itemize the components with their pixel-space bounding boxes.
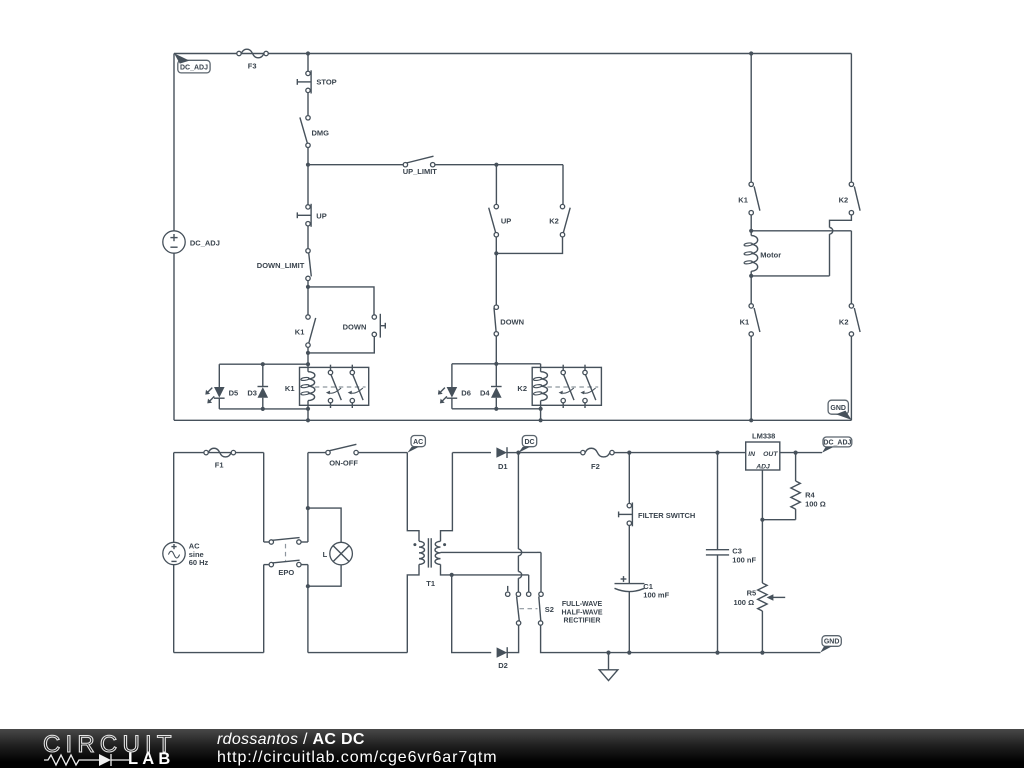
node flag DC <box>518 436 536 453</box>
node junction c3 bottom <box>715 651 719 655</box>
wire relay K2 to ground rail <box>540 409 542 421</box>
wire down-pushbutton loop top <box>308 287 374 315</box>
wire k2 jog down <box>830 215 852 228</box>
node junction below K1 switch <box>306 351 310 355</box>
svg-text:K1: K1 <box>738 196 748 205</box>
svg-text:C1: C1 <box>643 582 653 591</box>
wire k1switch-junction <box>307 347 309 353</box>
svg-text:D4: D4 <box>480 389 490 398</box>
wire epo pole2 down <box>307 565 309 653</box>
wire riser to on-off <box>307 453 309 509</box>
wire k2 jog to motor bottom <box>829 234 831 276</box>
junction up branch <box>494 163 498 167</box>
wire motor branch drop <box>750 54 752 183</box>
node junction rail motor <box>749 418 753 422</box>
circuitlab logo text <box>43 731 177 759</box>
svg-text:Motor: Motor <box>760 251 781 260</box>
relay K1 contact b <box>348 365 363 408</box>
switch EPO pole 1 <box>264 538 308 545</box>
logo resistor-diode glyph <box>44 752 130 767</box>
wire left rail bottom <box>173 253 175 420</box>
wire parallel pair bottoms <box>495 237 497 254</box>
wire ground rail <box>174 419 851 421</box>
wire top rail <box>174 53 851 55</box>
wire stop-dmg <box>307 93 309 116</box>
node flag DC_ADJ right <box>822 437 852 453</box>
wire D5/D3 box top <box>219 363 308 365</box>
svg-text:OUT: OUT <box>763 451 778 458</box>
wire secondary rail to D1 <box>452 452 491 454</box>
transformer T1 primary <box>413 541 424 564</box>
diode D3 <box>247 364 268 409</box>
node junction relay K1 bottom <box>306 407 310 411</box>
wire bottom tap down to D2 <box>452 575 492 653</box>
url text <box>217 749 498 767</box>
wire d2 to s2 pole1 <box>507 625 518 652</box>
dashed link S2 <box>520 608 538 610</box>
pushbutton UP <box>297 204 326 227</box>
capacitor C1 <box>615 576 670 653</box>
node junction relay K2 bottom <box>539 407 543 411</box>
regulator U1 LM338 <box>746 432 780 471</box>
wire k2 lower to rail corner <box>850 336 852 420</box>
wire filter switch to C1 <box>628 525 630 583</box>
diode D2 <box>497 647 508 670</box>
fuse F3 <box>237 49 268 70</box>
fuse F2 <box>581 448 615 471</box>
node junction lamp bottom <box>306 584 310 588</box>
wire secondary top riser <box>441 453 453 542</box>
wire down switch to relay K2 <box>495 336 497 364</box>
wire hop over motor-top line <box>830 228 833 235</box>
svg-text:L: L <box>323 550 328 559</box>
wire k1 contact to motor <box>750 215 752 231</box>
svg-text:HALF-WAVE: HALF-WAVE <box>561 609 602 616</box>
pushbutton FILTER SWITCH <box>619 503 696 527</box>
wire junction to UP switch <box>495 165 497 205</box>
node junction D3 top <box>261 362 265 366</box>
svg-text:DOWN: DOWN <box>343 323 367 332</box>
wire ac loop bottom <box>174 652 264 654</box>
node junction motor top <box>749 229 753 233</box>
wire c3 to regulator <box>718 452 746 454</box>
transformer T1 secondary <box>426 541 446 588</box>
svg-text:F1: F1 <box>215 461 224 470</box>
node junction lamp top <box>306 506 310 510</box>
svg-text:T1: T1 <box>426 579 435 588</box>
wire junction-K1switch <box>307 287 309 315</box>
svg-text:F3: F3 <box>248 61 257 70</box>
wire dmg-junction <box>307 148 309 165</box>
svg-text:EPO: EPO <box>278 568 294 577</box>
svg-text:UP_LIMIT: UP_LIMIT <box>403 167 438 176</box>
relay K2 <box>517 364 601 409</box>
svg-text:D6: D6 <box>461 389 471 398</box>
voltage source V2 AC <box>163 542 209 567</box>
wire d1 to dc node <box>507 452 518 454</box>
node junction down-pushbutton loop top <box>306 285 310 289</box>
svg-text:GND: GND <box>830 405 846 412</box>
relay K1 <box>285 364 369 409</box>
svg-text:DOWN_LIMIT: DOWN_LIMIT <box>257 261 305 270</box>
relay K2 contact b <box>580 365 595 408</box>
wire k1 lower to rail <box>750 336 752 420</box>
wire downlimit-junction <box>307 281 309 287</box>
switch EPO pole 2 <box>264 560 308 577</box>
node junction DC <box>516 451 520 455</box>
svg-text:DOWN: DOWN <box>500 317 524 326</box>
node junction pair bottom <box>494 251 498 255</box>
svg-text:FULL-WAVE: FULL-WAVE <box>562 601 603 608</box>
junction top rail / motor branch <box>749 51 753 55</box>
wire primary riser <box>407 453 419 542</box>
wire motor to k1 lower <box>750 276 752 304</box>
svg-text:DMG: DMG <box>312 128 330 137</box>
node junction relay K1 top <box>306 362 310 366</box>
svg-text:S2: S2 <box>545 605 554 614</box>
wire bottom tap corner to S2 <box>528 575 530 592</box>
switch UP_LIMIT <box>403 156 438 176</box>
node flag AC <box>407 436 425 453</box>
switch UP (k2 branch) <box>489 204 512 236</box>
svg-text:100 Ω: 100 Ω <box>733 598 754 607</box>
wire ac loop right side <box>263 453 265 542</box>
svg-text:R5: R5 <box>747 589 757 598</box>
lamp L <box>323 542 353 565</box>
wire ac source bottom <box>173 565 175 653</box>
wire r4 to adj <box>762 519 795 521</box>
wire D5/D3 box bottom <box>219 408 308 410</box>
svg-text:D5: D5 <box>229 389 239 398</box>
pushbutton STOP <box>297 70 336 93</box>
switch DOWN <box>494 305 524 336</box>
node flag DC_ADJ top-left <box>174 53 210 73</box>
wire motor bottom to k2 jog <box>751 275 829 277</box>
wire to DOWN switch <box>495 253 497 305</box>
switch S2 pole 1 <box>506 586 521 625</box>
potentiometer R5 <box>733 583 785 611</box>
switch K2 (aux contact) <box>549 204 570 236</box>
svg-text:ADJ: ADJ <box>755 464 770 471</box>
wire up_limit row left <box>308 164 403 166</box>
switch K2 (motor contact bottom) <box>839 304 860 337</box>
wire primary bottom return <box>407 564 419 652</box>
node junction relay K2 top <box>494 362 498 366</box>
dashed link EPO <box>285 544 287 561</box>
wire secondary center tap <box>441 551 538 553</box>
svg-text:R4: R4 <box>805 490 815 499</box>
svg-text:STOP: STOP <box>316 78 336 87</box>
svg-text:60 Hz: 60 Hz <box>189 558 209 567</box>
node junction rail k2 <box>539 418 543 422</box>
voltage source V1 DC_ADJ <box>163 231 220 253</box>
diode D4 <box>480 364 502 409</box>
switch DOWN_LIMIT <box>257 249 312 281</box>
wire motor top to k2 lower branch (with hop) <box>751 230 851 232</box>
transformer T1 core <box>428 538 431 567</box>
node junction motor bottom <box>749 274 753 278</box>
svg-text:100 mF: 100 mF <box>643 591 669 600</box>
svg-text:IN: IN <box>748 451 756 458</box>
svg-text:UP: UP <box>316 211 326 220</box>
wire up-downlimit <box>307 226 309 249</box>
wire k2 branch down <box>850 231 852 304</box>
wire down-pushbutton loop bottom <box>308 337 374 353</box>
svg-text:DC_ADJ: DC_ADJ <box>823 440 851 447</box>
switch S2 pole 2 <box>527 592 554 625</box>
LED D6 <box>438 364 471 409</box>
svg-text:GND: GND <box>824 639 840 646</box>
wire to relay K1 coil <box>307 353 309 364</box>
wire primary bottom rail <box>308 652 407 654</box>
wire ac loop top rail <box>174 452 264 454</box>
switch DMG <box>300 116 329 148</box>
ground symbol <box>599 653 618 681</box>
svg-text:C3: C3 <box>732 547 742 556</box>
wire up_limit row right <box>435 164 563 166</box>
attribution text <box>217 731 365 749</box>
wire rail to c3 junction <box>629 452 717 454</box>
svg-text:AC: AC <box>413 439 423 446</box>
svg-text:ON-OFF: ON-OFF <box>329 458 358 467</box>
switch K1 (aux contact) <box>295 315 316 348</box>
svg-text:D3: D3 <box>247 389 257 398</box>
node junction adj <box>760 518 764 522</box>
wire f2 to filter junction <box>614 452 629 454</box>
wire bottom tap to S2 <box>452 574 529 576</box>
wire D6/D4 box top <box>452 363 541 365</box>
wire s2 pole2 to gnd rail <box>541 625 821 652</box>
svg-text:LM338: LM338 <box>752 432 775 441</box>
svg-text:D1: D1 <box>498 462 508 471</box>
switch K1 (motor contact top) <box>738 182 760 215</box>
wire relay K1 to ground rail <box>307 409 309 421</box>
wire out pin <box>780 452 822 454</box>
wire left rail top <box>173 54 175 231</box>
wire r5 to rail <box>761 611 763 653</box>
svg-text:D2: D2 <box>498 661 508 670</box>
pushbutton DOWN <box>343 314 386 338</box>
diode D1 <box>496 447 507 471</box>
wire lamp bottom <box>308 565 341 586</box>
wire stop branch <box>307 54 309 72</box>
svg-text:K1: K1 <box>295 328 305 337</box>
node junction rail k1 <box>306 418 310 422</box>
node junction r5 bottom <box>760 651 764 655</box>
node flag GND top section <box>828 400 852 420</box>
inductor Motor <box>744 231 781 276</box>
svg-text:100 nF: 100 nF <box>732 555 756 564</box>
svg-text:FILTER SWITCH: FILTER SWITCH <box>638 511 695 520</box>
wire epo right riser <box>307 508 309 542</box>
node junction c1 bottom <box>627 651 631 655</box>
node junction D4 bottom <box>494 407 498 411</box>
wire D6/D4 box bottom <box>452 408 541 410</box>
svg-text:K1: K1 <box>740 318 750 327</box>
relay K1 contact a <box>326 365 341 408</box>
svg-text:UP: UP <box>501 217 511 226</box>
node flag GND bottom <box>820 636 841 653</box>
node junction D3 bottom <box>261 407 265 411</box>
node junction bottom tap <box>450 573 454 577</box>
wire k2 motor drop <box>850 54 852 183</box>
svg-text:F2: F2 <box>591 462 600 471</box>
wire ac source top <box>173 453 175 543</box>
wire k2-switch drop <box>562 165 564 205</box>
switch ON-OFF <box>308 444 407 467</box>
wire dc node drop with hops <box>517 453 519 549</box>
svg-text:K2: K2 <box>839 196 849 205</box>
svg-text:K2: K2 <box>839 318 849 327</box>
wire junction to UP pushbutton <box>307 165 309 205</box>
wire epo left lower <box>263 565 265 653</box>
svg-text:RECTIFIER: RECTIFIER <box>564 618 601 625</box>
switch K2 (motor contact top) <box>839 182 860 215</box>
switch K1 (motor contact bottom) <box>740 304 760 337</box>
wire center tap drop to S2 <box>540 552 542 592</box>
resistor R4 <box>791 453 826 520</box>
node junction r4 top <box>794 451 798 455</box>
svg-text:DC_ADJ: DC_ADJ <box>180 64 208 71</box>
wire dc node to F2 <box>518 452 580 454</box>
node junction UP_LIMIT row <box>306 163 310 167</box>
wire adj to r5 <box>761 520 763 583</box>
junction top rail / stop branch <box>306 51 310 55</box>
node junction gnd symbol <box>606 651 610 655</box>
svg-text:DC: DC <box>524 439 534 446</box>
svg-text:K2: K2 <box>549 217 559 226</box>
wire adj pin <box>761 470 763 520</box>
footer bar <box>0 729 1024 768</box>
svg-text:K2: K2 <box>517 384 527 393</box>
svg-text:K1: K1 <box>285 384 295 393</box>
label full-wave half-wave rectifier <box>561 601 602 625</box>
wire filter branch drop <box>628 453 630 504</box>
svg-text:DC_ADJ: DC_ADJ <box>190 239 220 248</box>
LED D5 <box>205 364 238 409</box>
wire secondary bottom tap <box>441 564 452 575</box>
fuse F1 <box>204 448 236 469</box>
svg-text:100 Ω: 100 Ω <box>805 499 826 508</box>
capacitor C3 <box>706 453 757 653</box>
node junction filter branch <box>627 451 631 455</box>
node junction c3 top <box>715 451 719 455</box>
wire lamp top <box>308 508 341 542</box>
relay K2 contact a <box>559 365 574 408</box>
